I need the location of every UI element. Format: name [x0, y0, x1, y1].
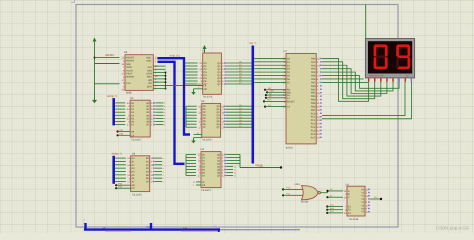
IC U3 74LS373 [201, 100, 221, 142]
wire U9 B [326, 196, 328, 198]
svg-text:INTR: INTR [126, 66, 132, 69]
svg-text:PB1: PB1 [311, 88, 316, 91]
svg-text:PC3: PC3 [311, 123, 316, 126]
wires U6 right [155, 157, 162, 159]
svg-text:HOLD: HOLD [126, 69, 133, 72]
svg-text:AD[0..15]: AD[0..15] [170, 55, 180, 58]
terminal RST [263, 100, 265, 102]
bus D[0..7] vertical [252, 46, 255, 164]
svg-text:U7: U7 [284, 50, 288, 53]
svg-text:PA1: PA1 [311, 61, 316, 64]
wire RESET to U1 [95, 57, 120, 59]
bus riser 1 [84, 223, 86, 230]
svg-text:OE: OE [204, 88, 208, 91]
svg-text:ALE: ALE [148, 66, 153, 69]
IC U7 8255A [284, 50, 317, 149]
svg-text:U6: U6 [132, 152, 136, 155]
node junction on rail [94, 57, 96, 59]
svg-text:WR: WR [270, 90, 274, 93]
wire ALE to U2 LE [153, 85, 202, 87]
ground [93, 97, 96, 103]
terminals U9 enables [326, 205, 328, 207]
svg-text:VD: VD [214, 225, 217, 228]
bus ADD[0..7] lower [158, 62, 185, 164]
svg-text:ADD[0..7]: ADD[0..7] [107, 95, 117, 98]
wires U4 right lower short [226, 166, 233, 168]
svg-text:U1: U1 [124, 50, 128, 54]
salmon line 2 [181, 230, 218, 232]
svg-text:PA3: PA3 [311, 68, 316, 71]
wires U3 right to data bus [226, 105, 252, 107]
svg-text:74LS373: 74LS373 [201, 189, 211, 192]
sheet border frame [76, 5, 398, 228]
wire vertical collector U4 left [185, 155, 187, 176]
svg-text:CLK: CLK [126, 82, 131, 85]
wires U5 left from bus [115, 102, 125, 104]
gate U8:A 74LS02 [295, 183, 321, 204]
corner mark [71, 0, 75, 3]
svg-text:PC5: PC5 [311, 129, 316, 132]
svg-text:PC2: PC2 [311, 119, 316, 122]
junction dots [165, 72, 167, 74]
svg-text:PA7: PA7 [311, 81, 316, 84]
pin OE wire U3 + ground [194, 137, 202, 139]
terminal A0 [265, 94, 267, 96]
IC U9 74LS138 [346, 184, 366, 221]
svg-text:U4: U4 [201, 148, 205, 151]
svg-text:DEN: DEN [147, 69, 152, 72]
wire vertical collector [239, 155, 241, 168]
wires U4 right upper to vertical [226, 154, 240, 156]
IC U1 8086 [121, 50, 153, 94]
svg-text:CSDN @qLtt-GG: CSDN @qLtt-GG [436, 226, 470, 231]
svg-text:RESET: RESET [126, 57, 134, 60]
svg-text:PA4: PA4 [311, 71, 316, 74]
wire vertical power rail [94, 44, 96, 99]
svg-text:8255A: 8255A [286, 146, 293, 149]
display pin stubs [368, 78, 370, 82]
bus stub 3 [217, 228, 219, 232]
wire rail to U1 row3 [95, 83, 120, 85]
svg-text:74LS373: 74LS373 [202, 139, 212, 142]
svg-text:D[0..7]: D[0..7] [250, 42, 257, 45]
svg-text:PB2: PB2 [311, 92, 316, 95]
svg-text:NMI: NMI [126, 63, 131, 66]
svg-text:M/IO: M/IO [147, 76, 152, 79]
terminal A1 [265, 97, 267, 99]
IC U2 74LS373 [202, 50, 221, 99]
power arrow above U2 [203, 46, 206, 53]
wire digit select 2 [322, 82, 412, 119]
svg-text:M.M: M.M [146, 226, 150, 229]
svg-text:CS: CS [287, 106, 291, 109]
svg-text:PB0: PB0 [311, 85, 316, 88]
terminal AB [117, 130, 119, 132]
svg-text:AB: AB [132, 184, 136, 187]
pin LE wire U4 [196, 181, 201, 183]
bus ADD[0..7] upper [158, 58, 191, 134]
wire digit select 1 [322, 82, 405, 116]
digit 0 [375, 44, 387, 47]
svg-text:U5: U5 [130, 97, 134, 100]
wires U3 left [186, 105, 197, 107]
svg-text:74LS373: 74LS373 [203, 95, 213, 98]
svg-text:PC7: PC7 [311, 136, 316, 139]
wires U4 left [186, 154, 196, 156]
svg-text:D[0..7]: D[0..7] [256, 164, 263, 167]
wire to WR node [240, 167, 281, 169]
IC U6 74LS245 [131, 152, 150, 196]
pin OE wire U4 [196, 184, 201, 186]
wire PA6 stub [322, 78, 364, 80]
wire vertical collector U3 left [185, 106, 187, 127]
wire U9 Y output [370, 198, 381, 200]
svg-text:PC1: PC1 [311, 116, 316, 119]
wire PA7 stub [322, 81, 368, 83]
svg-text:U3: U3 [201, 100, 205, 103]
svg-text:WR: WR [148, 79, 152, 82]
wires U7 data from bus [254, 57, 286, 59]
svg-text:RD: RD [287, 89, 291, 92]
node terminal [280, 166, 282, 168]
terminal CE [117, 134, 119, 136]
wires U6 left from bus [115, 157, 126, 159]
svg-text:MN/MX: MN/MX [126, 76, 134, 79]
ground at U2 OE [193, 89, 195, 92]
terminal WR [266, 91, 268, 93]
svg-text:8086: 8086 [126, 92, 132, 95]
wire rail to U1 row2 [95, 63, 120, 65]
svg-text:ABCDEFG DP: ABCDEFG DP [369, 75, 384, 78]
svg-text:INTA: INTA [147, 85, 153, 88]
IC U5 74LS245 [130, 97, 150, 142]
svg-text:74LS245: 74LS245 [131, 139, 141, 142]
svg-text:LE: LE [204, 85, 207, 88]
terminal CS [264, 106, 266, 108]
svg-text:RESET: RESET [287, 100, 295, 103]
wire above display [365, 5, 367, 39]
svg-text:DT/R: DT/R [147, 73, 153, 76]
pin OE wire [194, 88, 203, 90]
svg-text:RD: RD [149, 82, 153, 85]
terminal U9 A [326, 190, 328, 192]
svg-text:PC4: PC4 [311, 126, 316, 129]
terminal U6 AB [115, 184, 117, 186]
bus bottom horizontal thin [220, 229, 300, 231]
IC U4 74LS373 [201, 148, 222, 192]
svg-text:TEST: TEST [126, 73, 133, 76]
terminal U6 CE [115, 187, 117, 189]
display 2-digit 7-segment [365, 39, 414, 78]
svg-text:PA5: PA5 [311, 75, 316, 78]
svg-text:CE: CE [131, 134, 135, 137]
svg-text:READY: READY [126, 60, 134, 63]
svg-text:U8:A: U8:A [295, 183, 301, 186]
wire AD stubs U1 [153, 65, 165, 67]
svg-text:U2: U2 [202, 50, 206, 53]
svg-text:PC6: PC6 [311, 133, 316, 136]
wire tie vertical [165, 73, 167, 89]
terminal RD [264, 89, 266, 91]
wires U5 right [155, 102, 163, 104]
svg-text:PB5: PB5 [311, 102, 316, 105]
svg-text:PB3: PB3 [311, 95, 316, 98]
svg-text:PB6: PB6 [311, 105, 316, 108]
svg-text:AD8..: AD8.. [146, 60, 152, 63]
pin LE wire U3 [194, 134, 202, 136]
bus ADD[0..7] at U5 [112, 98, 115, 125]
svg-text:74LS02: 74LS02 [301, 201, 310, 204]
svg-text:RESET: RESET [106, 53, 116, 57]
wires U2 left from bus [185, 62, 197, 64]
terminal gate in1 [282, 188, 284, 190]
power rail VCC arrow [93, 39, 96, 45]
svg-text:AB: AB [131, 131, 135, 134]
svg-text:74LS245: 74LS245 [132, 193, 142, 196]
wires segment staircase [322, 58, 369, 101]
svg-text:PB7: PB7 [311, 109, 316, 112]
terminal gate in2 [282, 194, 284, 196]
pin LE stub [198, 85, 203, 87]
svg-text:74LS138: 74LS138 [349, 218, 359, 221]
wires U2 right to data bus [227, 62, 252, 64]
bus bottom horizontal [84, 228, 220, 230]
svg-text:OE: OE [202, 184, 206, 187]
svg-text:ADD[0..7]: ADD[0..7] [112, 153, 122, 156]
wire gate output [320, 192, 327, 194]
svg-text:CE: CE [132, 187, 136, 190]
bus riser 2 [150, 223, 152, 230]
wire stub row11 [153, 88, 165, 90]
svg-text:PB4: PB4 [311, 99, 316, 102]
svg-text:PA6: PA6 [311, 78, 316, 81]
salmon line 1 [105, 230, 131, 232]
svg-text:WR: WR [287, 91, 291, 94]
svg-text:LE: LE [202, 181, 205, 184]
svg-text:PC0: PC0 [311, 112, 316, 115]
digit 9 [397, 44, 409, 47]
svg-text:AD0..: AD0.. [146, 57, 152, 60]
wire gate to U9 [328, 191, 344, 193]
svg-text:PA0: PA0 [311, 57, 316, 60]
svg-text:PA2: PA2 [311, 64, 316, 67]
bus ADD[0..7] at U6 [112, 156, 115, 184]
